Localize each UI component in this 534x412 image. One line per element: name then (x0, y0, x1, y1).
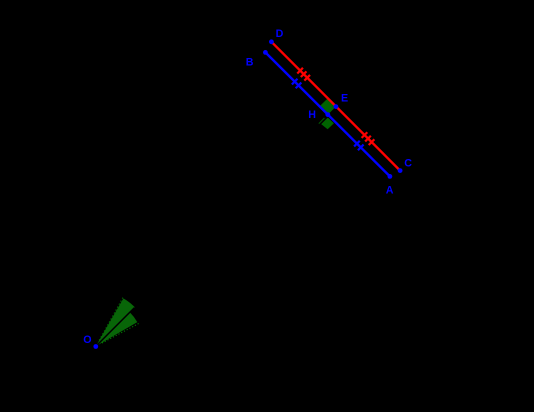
svg-text:C: C (404, 157, 412, 169)
svg-text:O: O (83, 334, 91, 346)
svg-text:A: A (386, 184, 394, 196)
svg-text:B: B (246, 56, 254, 68)
svg-text:H: H (308, 109, 316, 121)
svg-text:D: D (276, 28, 284, 40)
svg-text:E: E (341, 93, 348, 105)
